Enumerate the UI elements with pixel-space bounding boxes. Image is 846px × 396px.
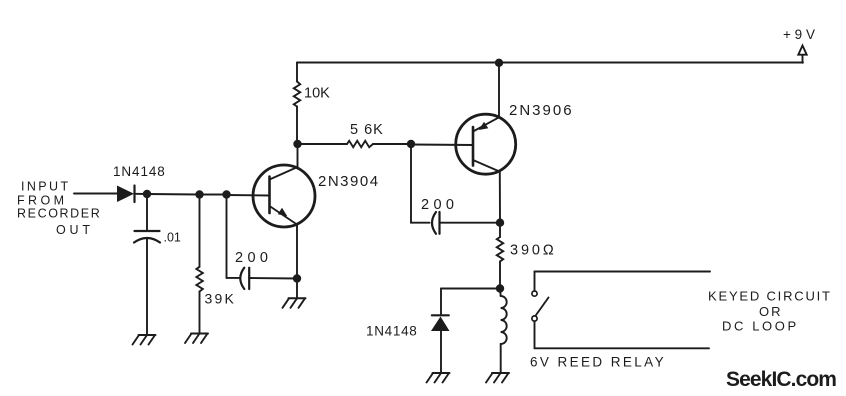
node: emitter/rail junction dot bbox=[495, 59, 503, 67]
svg-text:RECORDER: RECORDER bbox=[17, 207, 101, 221]
capacitor C2 200 (Q1 base-emitter) bbox=[227, 195, 298, 290]
wire: input line bbox=[74, 193, 117, 195]
node: Q2 base junction dot bbox=[407, 140, 415, 148]
svg-text:390Ω: 390Ω bbox=[510, 243, 557, 259]
node: input label text bbox=[17, 180, 101, 238]
transistor Q2 2N3906 bbox=[456, 114, 516, 174]
capacitor C3 200 (base-collector) bbox=[411, 144, 500, 234]
ground (under D2) bbox=[427, 373, 450, 383]
reed switch S1 bbox=[532, 272, 710, 349]
ground (Q1 emitter) bbox=[283, 298, 306, 308]
wire: Q1 emitter down bbox=[296, 225, 298, 279]
wire: Q2 collector down bbox=[499, 172, 501, 223]
node A junction dot (diode cathode) bbox=[143, 190, 151, 198]
resistor R1 10K bbox=[294, 63, 300, 145]
svg-text:5 6K: 5 6K bbox=[350, 122, 384, 138]
resistor R3 5.6K bbox=[298, 141, 412, 147]
node: keyed circuit label bbox=[708, 289, 832, 334]
wire: node A to node B bbox=[147, 193, 200, 196]
svg-text:.01: .01 bbox=[164, 231, 181, 245]
svg-text:1N4148: 1N4148 bbox=[366, 324, 418, 339]
svg-text:INPUT: INPUT bbox=[21, 180, 71, 194]
ground (under C1) bbox=[133, 335, 156, 345]
wire: emitter dot to ground bbox=[296, 279, 298, 299]
svg-text:1N4148: 1N4148 bbox=[113, 164, 166, 179]
power +9V terminal arrow bbox=[798, 46, 806, 63]
svg-text:FROM: FROM bbox=[17, 194, 67, 208]
svg-text:OUT: OUT bbox=[56, 223, 94, 237]
svg-text:39K: 39K bbox=[205, 291, 237, 307]
node: collector load junction dot bbox=[496, 284, 504, 292]
wire: Q2 emitter to rail bbox=[498, 63, 500, 118]
node: Q1 emitter junction dot bbox=[293, 274, 301, 282]
transistor Q1 2N3904 bbox=[253, 165, 315, 227]
node B junction dot (39K top) bbox=[195, 190, 203, 198]
wire: Q1 collector up bbox=[297, 144, 299, 167]
diode D1 1N4148 (input) bbox=[117, 186, 147, 203]
svg-text:2N3906: 2N3906 bbox=[509, 102, 574, 119]
ground (under R2) bbox=[185, 334, 208, 344]
svg-text:200: 200 bbox=[421, 197, 458, 213]
inductor L1 relay coil bbox=[500, 289, 507, 374]
wire: to Q2 base bbox=[411, 144, 473, 147]
svg-text:SeekIC.com: SeekIC.com bbox=[726, 368, 836, 391]
svg-text:10K: 10K bbox=[304, 86, 330, 102]
svg-text:OR: OR bbox=[759, 304, 783, 319]
svg-text:6V REED RELAY: 6V REED RELAY bbox=[530, 355, 666, 370]
node C junction dot (200pF branch) bbox=[222, 190, 230, 198]
wire: to flyback diode bbox=[441, 288, 500, 290]
svg-text:KEYED CIRCUIT: KEYED CIRCUIT bbox=[708, 289, 832, 304]
node: collector junction dot bbox=[496, 219, 504, 227]
wire: +9V top rail bbox=[297, 62, 803, 64]
svg-text:+9V: +9V bbox=[783, 27, 819, 42]
wire: node C to Q1 base bbox=[227, 194, 270, 197]
svg-text:2N3904: 2N3904 bbox=[318, 173, 380, 190]
svg-text:200: 200 bbox=[235, 250, 272, 266]
svg-text:DC LOOP: DC LOOP bbox=[722, 319, 799, 334]
wire: node B to node C bbox=[200, 194, 227, 196]
node: collector/10K/5.6K junction dot bbox=[293, 140, 301, 148]
resistor R4 390Ω bbox=[497, 223, 503, 289]
resistor R2 39K bbox=[196, 195, 202, 334]
diode D2 1N4148 (flyback) bbox=[431, 315, 450, 373]
ground (under L1) bbox=[486, 373, 509, 383]
capacitor C1 .01 bbox=[134, 194, 160, 335]
